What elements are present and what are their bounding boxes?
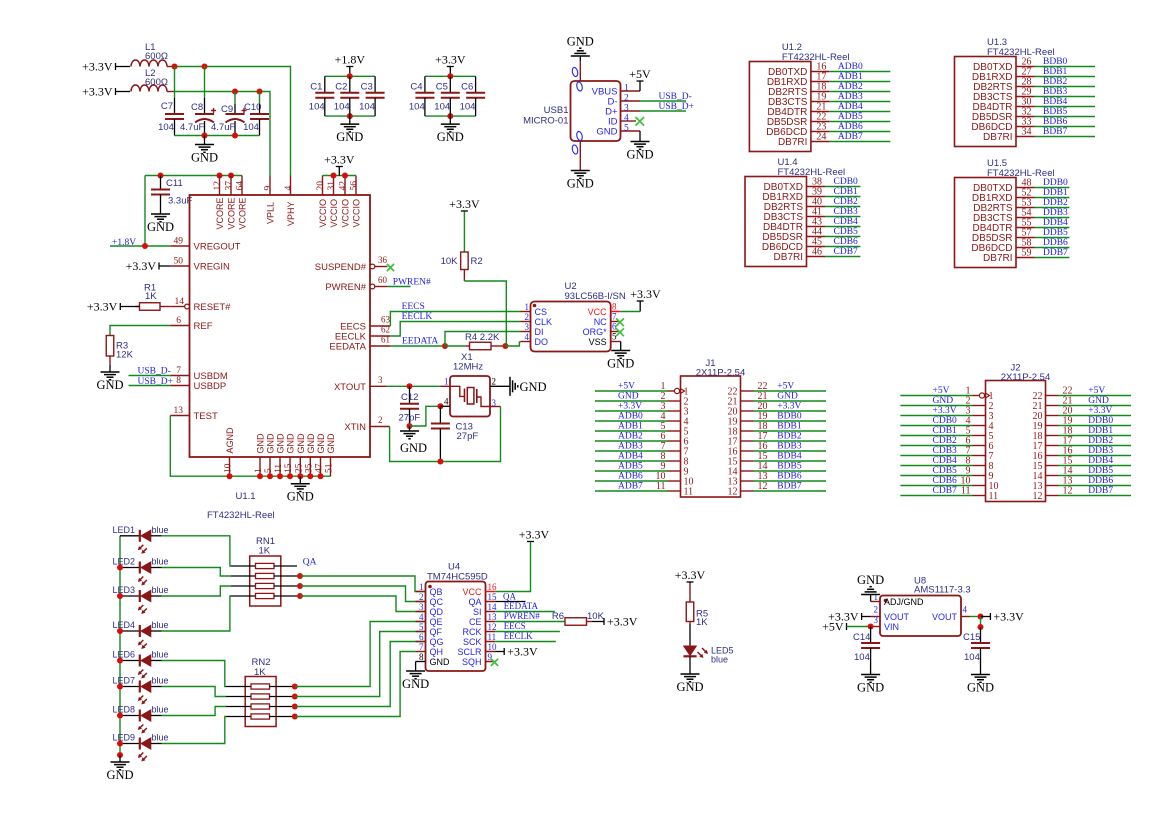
- wire +3.3V row1 to VPHY: [175, 67, 291, 176]
- svg-text:DDB4: DDB4: [1043, 218, 1068, 228]
- led LED5: [683, 624, 733, 674]
- svg-text:12: 12: [488, 622, 497, 632]
- wire: [862, 616, 871, 618]
- connector J2 body: [986, 363, 1051, 502]
- pin 58 DB6DCD: [971, 238, 1034, 255]
- wire: [754, 450, 827, 452]
- resistor RN2.4: [226, 714, 295, 719]
- pin 7 USBDM: [170, 366, 228, 382]
- mounting pad 0 (top inside): [576, 81, 583, 91]
- svg-text:63: 63: [381, 315, 391, 325]
- wire: [1035, 136, 1096, 138]
- pin 4 VPHY: [284, 176, 296, 227]
- wire: [120, 306, 139, 308]
- pin 15 QA: [468, 592, 497, 607]
- svg-text:1: 1: [254, 468, 264, 473]
- pin 1 CS: [521, 302, 548, 317]
- pin 34 DB7RI: [983, 127, 1034, 144]
- pin 16 VCC: [462, 582, 497, 597]
- wire: [495, 601, 525, 603]
- svg-text:GND: GND: [626, 148, 653, 162]
- ic U4 TM74HC595D body: [426, 562, 488, 672]
- ic U1.1 FT4232HL-Reel body: [190, 195, 371, 521]
- wire: [1035, 86, 1096, 88]
- wire: [1035, 257, 1070, 259]
- svg-text:12: 12: [213, 181, 223, 191]
- wire: [1035, 227, 1070, 229]
- wire: [1059, 465, 1132, 467]
- pin 4 ID: [608, 114, 636, 128]
- pin 49 VREGOUT: [170, 237, 240, 253]
- pin 25 GND: [294, 433, 306, 476]
- svg-text:20: 20: [316, 181, 326, 191]
- wire: [1059, 405, 1132, 407]
- pin 45 DB6DCD: [762, 237, 825, 254]
- wire: [754, 480, 827, 482]
- wire XTIN to bus: [390, 407, 501, 462]
- wire: [825, 226, 860, 228]
- connector J1 body: [681, 358, 746, 497]
- svg-text:104: 104: [434, 102, 450, 113]
- svg-text:600Ω: 600Ω: [145, 51, 168, 62]
- svg-text:59: 59: [1022, 248, 1032, 259]
- junction: [447, 73, 453, 79]
- no-connect X (ORG*): [616, 328, 624, 336]
- resistor RN2.3: [226, 704, 295, 709]
- pin 14 (J2 right): [1033, 466, 1073, 483]
- svg-text:VCC: VCC: [588, 307, 608, 317]
- pin 6 ORG*: [583, 322, 621, 338]
- svg-text:ADB5: ADB5: [618, 462, 643, 472]
- pin 3 QD: [416, 602, 444, 617]
- svg-text:13: 13: [174, 406, 184, 416]
- ground (USB shield bottom): [579, 169, 581, 172]
- wire RN2.2 to U4 QF: [295, 632, 426, 697]
- svg-text:CDB5: CDB5: [933, 466, 958, 476]
- svg-text:LED4: LED4: [113, 620, 136, 630]
- svg-text:60: 60: [378, 275, 388, 285]
- pin 3 (J1 left): [661, 401, 689, 418]
- svg-text:VREGIN: VREGIN: [194, 262, 231, 273]
- svg-text:11: 11: [989, 491, 999, 502]
- svg-text:7: 7: [612, 312, 617, 322]
- resistor RN2.2: [226, 694, 295, 699]
- wire cap bank top rail: [325, 75, 375, 77]
- svg-text:SCLR: SCLR: [457, 647, 482, 657]
- junction: [117, 713, 123, 719]
- svg-text:QA: QA: [303, 558, 317, 568]
- resistor RN1.4: [231, 593, 297, 598]
- svg-text:GND: GND: [1088, 396, 1109, 406]
- ground (X1 pin2, sideways): [509, 377, 511, 396]
- svg-text:C12: C12: [401, 392, 418, 403]
- svg-text:47: 47: [315, 463, 325, 473]
- pin 6 REF: [170, 316, 212, 332]
- svg-text:VCCIO: VCCIO: [352, 199, 362, 228]
- svg-text:CDB6: CDB6: [933, 476, 958, 486]
- pin 16 DB0TXD: [768, 62, 829, 79]
- pin 55 DB4DTR: [972, 218, 1034, 235]
- ground (filter bank): [204, 136, 206, 145]
- wire: [900, 425, 972, 427]
- mounting pad 0 (bottom outside): [571, 144, 578, 154]
- svg-text:12: 12: [1033, 491, 1043, 502]
- pin 9 (J2 left): [966, 466, 994, 483]
- power port +3.3V (R5): [687, 581, 694, 583]
- pin 13 TEST: [170, 406, 218, 422]
- wire: [825, 246, 860, 248]
- svg-text:3: 3: [419, 602, 424, 612]
- wire: [1035, 66, 1096, 68]
- svg-text:+3.3V: +3.3V: [324, 153, 355, 167]
- wire: [825, 236, 860, 238]
- pin 7 NC: [594, 312, 621, 328]
- svg-text:GND: GND: [316, 433, 326, 454]
- wire: [495, 641, 556, 643]
- svg-text:VSS: VSS: [589, 337, 607, 347]
- wire RN1.4 to U4 QD: [300, 596, 426, 612]
- svg-text:MICRO-01: MICRO-01: [523, 116, 568, 127]
- ic U1.2 body: [749, 42, 849, 152]
- wire: [1035, 197, 1070, 199]
- junction node EEDATA/DI: [442, 343, 448, 349]
- capacitor C7: [158, 67, 184, 136]
- pin 9 (J1 left): [661, 461, 689, 478]
- pin 7 (J1 left): [661, 441, 689, 458]
- pin 5 (J2 left): [966, 426, 994, 443]
- svg-text:CDB1: CDB1: [933, 426, 958, 436]
- svg-text:GND: GND: [607, 357, 634, 371]
- svg-text:GND: GND: [296, 433, 306, 454]
- pin 1 QB: [416, 582, 443, 597]
- svg-text:+3.3V: +3.3V: [618, 402, 642, 412]
- svg-text:104: 104: [243, 122, 259, 133]
- pin 41 DB3CTS: [764, 207, 825, 224]
- svg-text:2: 2: [624, 94, 629, 104]
- wire LED3 to RN1.3: [162, 586, 232, 596]
- svg-text:4.7uF: 4.7uF: [211, 122, 235, 133]
- svg-text:GND: GND: [287, 490, 314, 504]
- ground (C1-C3): [349, 116, 351, 124]
- svg-text:GND: GND: [266, 433, 276, 454]
- svg-text:DDB7: DDB7: [1088, 486, 1113, 496]
- wire: [825, 256, 860, 258]
- pin 13 CE: [469, 612, 497, 627]
- inductor L2: [131, 68, 175, 92]
- svg-text:DDB5: DDB5: [1088, 466, 1113, 476]
- wire: [387, 286, 410, 288]
- svg-text:ADB3: ADB3: [618, 442, 643, 452]
- wire: [116, 66, 131, 68]
- svg-text:BDB6: BDB6: [777, 472, 802, 482]
- svg-text:QC: QC: [430, 597, 444, 607]
- wire: [463, 212, 465, 253]
- svg-text:GND: GND: [286, 433, 296, 454]
- svg-text:5: 5: [612, 332, 617, 342]
- svg-text:C2: C2: [335, 82, 347, 93]
- power port +3.3V (row 2): [115, 88, 117, 95]
- wire: [829, 121, 890, 123]
- svg-text:11: 11: [488, 632, 497, 642]
- svg-text:XTOUT: XTOUT: [334, 382, 366, 393]
- wire: [495, 651, 504, 653]
- svg-text:104: 104: [359, 102, 375, 113]
- wire: [900, 415, 972, 417]
- junction: [287, 473, 293, 479]
- svg-text:4: 4: [284, 186, 294, 191]
- junction: [978, 624, 984, 630]
- svg-text:R2: R2: [471, 256, 483, 267]
- pin 32 DB5DSR: [972, 107, 1035, 124]
- resistor R1: [135, 283, 170, 311]
- pin 3 DI: [521, 322, 544, 337]
- svg-text:+5V: +5V: [618, 382, 635, 392]
- wire: [970, 616, 981, 618]
- svg-text:+5V: +5V: [777, 382, 794, 392]
- svg-text:VCCIO: VCCIO: [341, 199, 351, 228]
- svg-text:DDB4: DDB4: [1088, 456, 1113, 466]
- svg-text:1K: 1K: [259, 546, 271, 557]
- pin 50 VREGIN: [170, 257, 230, 273]
- svg-text:+3.3V: +3.3V: [630, 287, 661, 301]
- svg-text:27pF: 27pF: [457, 431, 479, 442]
- svg-text:+5V: +5V: [1088, 386, 1105, 396]
- svg-text:GND: GND: [400, 441, 427, 455]
- pin 5 GND: [264, 433, 276, 476]
- ground (LED5): [689, 673, 691, 676]
- svg-text:CDB0: CDB0: [834, 177, 859, 187]
- power port +3.3V (U2): [637, 300, 644, 302]
- wire: [754, 470, 827, 472]
- pin 24 DB7RI: [778, 132, 829, 149]
- svg-text:blue: blue: [711, 655, 728, 665]
- resistor RN1.1: [231, 563, 297, 568]
- junction: [227, 473, 233, 479]
- svg-text:BDB4: BDB4: [1043, 97, 1068, 107]
- svg-text:ADJ/GND: ADJ/GND: [884, 597, 924, 607]
- svg-text:BDB7: BDB7: [777, 482, 802, 492]
- svg-text:C10: C10: [244, 102, 261, 113]
- svg-text:ADB7: ADB7: [618, 482, 643, 492]
- svg-text:DB7RI: DB7RI: [983, 132, 1012, 143]
- pin 36 SUSPEND#: [315, 255, 388, 273]
- power port +3.3V (U4 VCC): [527, 541, 534, 543]
- pin 20 (J2 right): [1033, 406, 1073, 423]
- svg-text:+3.3V: +3.3V: [435, 53, 466, 67]
- svg-text:CDB2: CDB2: [834, 197, 859, 207]
- svg-text:27pF: 27pF: [399, 413, 421, 424]
- svg-text:QB: QB: [430, 587, 443, 597]
- junction: [117, 593, 123, 599]
- svg-text:GND: GND: [567, 35, 594, 49]
- wire: [829, 111, 890, 113]
- pin 2 VOUT: [871, 605, 910, 623]
- svg-text:2: 2: [874, 605, 879, 615]
- pin 5 GND: [596, 124, 640, 138]
- svg-text:GND: GND: [306, 433, 316, 454]
- resistor R6: [552, 611, 605, 625]
- svg-text:CDB7: CDB7: [933, 486, 958, 496]
- svg-text:600Ω: 600Ω: [145, 77, 168, 88]
- svg-text:2: 2: [525, 312, 530, 322]
- pin4 lead: [440, 405, 450, 407]
- pin 22 DB5DSR: [767, 112, 830, 129]
- wire: [870, 596, 872, 602]
- svg-text:C3: C3: [361, 82, 373, 93]
- svg-text:TM74HC595D: TM74HC595D: [427, 572, 488, 583]
- ground (C15): [980, 673, 982, 676]
- pin 47 GND: [315, 433, 327, 476]
- svg-text:25: 25: [294, 463, 304, 473]
- wire: [1035, 76, 1096, 78]
- svg-text:3: 3: [624, 104, 629, 114]
- svg-text:DDB2: DDB2: [1043, 198, 1068, 208]
- svg-text:1: 1: [419, 582, 424, 592]
- svg-text:DB7RI: DB7RI: [983, 253, 1012, 264]
- svg-text:CDB5: CDB5: [834, 227, 859, 237]
- svg-text:blue: blue: [152, 650, 169, 660]
- ground (USB pin5): [639, 140, 641, 143]
- pin 16 (J2 right): [1033, 446, 1073, 463]
- pin 57 DB5DSR: [972, 228, 1035, 245]
- wire: [1035, 116, 1096, 118]
- svg-text:CDB3: CDB3: [933, 446, 958, 456]
- svg-text:blue: blue: [152, 705, 169, 715]
- pin 2 QC: [416, 592, 444, 607]
- wire: [620, 342, 622, 351]
- resistor R3: [106, 336, 133, 366]
- resistor RN2.1: [226, 684, 295, 689]
- pin 4 VOUT (right): [932, 605, 970, 623]
- svg-text:104: 104: [460, 102, 476, 113]
- pin 10 AGND: [224, 427, 236, 476]
- wire EECS: [390, 312, 520, 327]
- pin 9 SQH: [462, 652, 495, 667]
- wire: [129, 375, 171, 377]
- wire EECLK: [390, 322, 520, 337]
- svg-text:GND: GND: [520, 380, 547, 394]
- svg-text:35: 35: [304, 463, 314, 473]
- pin 21 (J1 right): [728, 391, 768, 408]
- svg-text:+3.3V: +3.3V: [82, 85, 113, 99]
- wire: [754, 430, 827, 432]
- ic U1.3 body: [955, 37, 1055, 147]
- svg-text:8: 8: [419, 652, 424, 662]
- pin 12 (J1 right): [728, 481, 768, 498]
- svg-text:CDB3: CDB3: [834, 207, 859, 217]
- wire: [1059, 415, 1132, 417]
- svg-text:VREGOUT: VREGOUT: [194, 242, 241, 253]
- wire: [825, 216, 860, 218]
- wire: [640, 100, 686, 102]
- svg-text:104: 104: [334, 102, 350, 113]
- wire: [595, 400, 668, 402]
- power port +3.3V (RESET#): [119, 303, 121, 310]
- svg-text:DDB3: DDB3: [1088, 446, 1113, 456]
- wire LED8 to RN2.3: [162, 707, 227, 716]
- pin 18 (J1 right): [728, 421, 768, 438]
- pin 8 (J2 left): [966, 456, 994, 473]
- wire VCCIO rail: [323, 175, 357, 177]
- wire: [754, 400, 827, 402]
- capacitor C9: [211, 92, 247, 136]
- junction: [297, 573, 303, 579]
- led LED9: [113, 733, 169, 762]
- svg-text:ADB1: ADB1: [618, 422, 643, 432]
- power port +3.3V (VCCIO): [336, 166, 343, 168]
- pin 9 VPLL: [264, 176, 276, 225]
- pin 52 DB1RXD: [972, 188, 1035, 205]
- svg-text:1K: 1K: [696, 617, 708, 628]
- svg-text:GND: GND: [618, 392, 639, 402]
- svg-text:15: 15: [488, 592, 498, 602]
- pin 21 (J2 right): [1033, 396, 1073, 413]
- svg-text:QH: QH: [430, 647, 444, 657]
- svg-text:46: 46: [812, 247, 822, 258]
- wire: [1059, 455, 1132, 457]
- svg-text:AMS1117-3.3: AMS1117-3.3: [914, 585, 971, 596]
- pin 39 DB1RXD: [762, 187, 825, 204]
- junction: [307, 473, 313, 479]
- svg-text:+5V: +5V: [933, 386, 950, 396]
- wire LED4 to RN1.4: [162, 596, 232, 631]
- ground (C12): [409, 426, 411, 431]
- pin 11 GND: [274, 433, 286, 476]
- pin 7 (J2 left): [966, 446, 994, 463]
- junction: [407, 423, 413, 429]
- svg-text:+1.8V: +1.8V: [335, 53, 366, 67]
- svg-text:C6: C6: [461, 82, 473, 93]
- svg-text:VCCIO: VCCIO: [318, 199, 328, 228]
- svg-text:11: 11: [684, 487, 694, 498]
- wire: [1035, 126, 1096, 128]
- svg-text:GND: GND: [967, 681, 994, 695]
- wire: [754, 390, 827, 392]
- junction: [437, 459, 443, 465]
- pin 11 (J1 left): [656, 481, 693, 498]
- svg-text:DDB1: DDB1: [1043, 188, 1068, 198]
- svg-text:BDB5: BDB5: [777, 462, 802, 472]
- svg-text:DDB1: DDB1: [1088, 426, 1113, 436]
- pin 17 DB1RXD: [767, 72, 830, 89]
- resistor R4: [445, 332, 505, 350]
- svg-text:GND: GND: [106, 768, 133, 782]
- svg-text:AGND: AGND: [225, 427, 235, 454]
- wire R2 to DO node: [464, 281, 506, 346]
- wire: [159, 265, 170, 267]
- svg-text:34: 34: [1022, 127, 1032, 138]
- pin 19 (J2 right): [1033, 416, 1073, 433]
- svg-text:REF: REF: [194, 321, 213, 332]
- pin 44 DB5DSR: [762, 227, 825, 244]
- svg-text:50: 50: [174, 257, 184, 267]
- svg-text:CDB6: CDB6: [834, 237, 859, 247]
- pin 15 (J1 right): [728, 451, 768, 468]
- svg-text:EECLK: EECLK: [402, 312, 433, 322]
- pin 15 GND: [284, 433, 296, 476]
- wire: [900, 495, 972, 497]
- power port +3.3V (row 1): [115, 63, 117, 70]
- svg-text:C15: C15: [963, 632, 980, 643]
- pin 46 DB7RI: [774, 247, 825, 264]
- svg-text:12: 12: [728, 487, 738, 498]
- svg-text:VPLL: VPLL: [266, 202, 276, 224]
- junction: [292, 714, 298, 720]
- wire LED2 to RN1.2: [162, 568, 232, 577]
- wire: [829, 141, 890, 143]
- svg-text:CDB7: CDB7: [834, 247, 859, 257]
- pin 14 SI: [473, 602, 497, 617]
